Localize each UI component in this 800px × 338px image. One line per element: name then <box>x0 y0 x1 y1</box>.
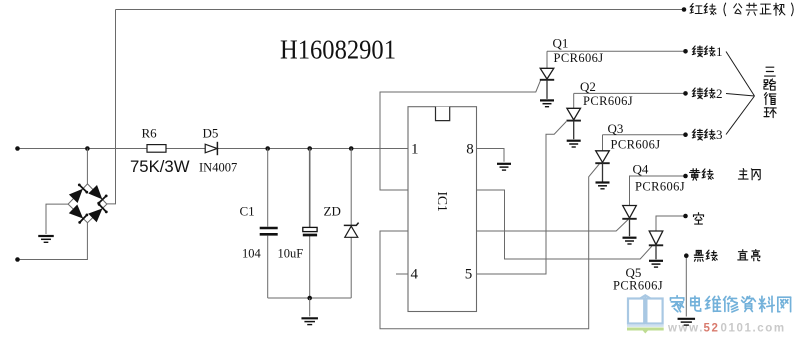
thyristor Q5 <box>649 231 663 259</box>
svg-text:PCR606J: PCR606J <box>635 179 685 193</box>
label Q1 <box>553 36 569 51</box>
label Q3 <box>608 121 624 136</box>
IC IC1 <box>408 107 477 312</box>
label Q3 PCR606J <box>611 137 661 151</box>
bridge rectifier BR1 <box>68 184 108 224</box>
label 三路循环 vertical <box>764 67 776 117</box>
svg-text:H16082901: H16082901 <box>280 34 396 65</box>
ground bridge AC ground <box>38 236 54 242</box>
wire pin2 to Q1 gate <box>380 80 541 190</box>
thyristor Q3 <box>595 135 609 182</box>
thyristor Q1 <box>540 51 554 99</box>
pin 1 <box>411 142 419 158</box>
svg-text:Q1: Q1 <box>553 36 569 51</box>
label R6 <box>142 126 158 141</box>
wire C2 branch <box>309 149 311 299</box>
label ZD <box>324 204 341 219</box>
ground filter ground <box>301 318 318 324</box>
svg-text:PCR606J: PCR606J <box>611 137 661 151</box>
svg-text:3: 3 <box>716 127 723 142</box>
wire Q2 anode to green2 node <box>574 91 688 96</box>
wire top positive rail <box>116 7 687 12</box>
label 10uF <box>278 247 304 261</box>
label C1 <box>240 204 255 219</box>
label Q5 <box>626 265 642 280</box>
label Q1 PCR606J <box>554 51 604 65</box>
svg-text:Q3: Q3 <box>608 121 624 136</box>
pin 5 <box>465 267 473 283</box>
svg-text:PCR606J: PCR606J <box>613 279 663 293</box>
wire black always-on to ground <box>684 253 689 316</box>
watermark text 家电维修资料网 <box>670 296 790 312</box>
svg-text:4: 4 <box>411 267 419 283</box>
node green wire 1 label 绿线1 <box>692 44 722 59</box>
wire Q3 anode to green3 node <box>603 132 688 137</box>
label 75K/3W <box>130 157 190 176</box>
svg-text:Q4: Q4 <box>633 162 649 177</box>
svg-text:PCR606J: PCR606J <box>583 94 633 108</box>
wire bottom left terminal <box>15 223 87 262</box>
wire Q4 anode to yellow node <box>630 174 688 206</box>
ground Q1 cathode <box>540 100 554 106</box>
svg-text:PCR606J: PCR606J <box>554 51 604 65</box>
svg-text:IN4007: IN4007 <box>199 161 237 175</box>
svg-text:2: 2 <box>716 86 723 101</box>
svg-text:www.: www. <box>667 323 704 335</box>
label Q4 <box>633 162 649 177</box>
diode D5 <box>205 142 217 155</box>
wire pin5 to Q2 gate <box>477 122 567 275</box>
svg-text:D5: D5 <box>203 126 219 141</box>
capacitor C1 <box>260 228 278 234</box>
svg-text:C1: C1 <box>240 204 255 219</box>
label Q5 PCR606J <box>613 279 663 293</box>
ground Q4 cathode <box>623 238 637 244</box>
wire capacitor bottom bus <box>268 296 352 317</box>
svg-text:75K/3W: 75K/3W <box>130 157 190 176</box>
zener diode ZD <box>344 223 359 238</box>
svg-text:Q2: Q2 <box>580 79 596 94</box>
label IN4007 <box>199 161 237 175</box>
ground Q3 cathode <box>596 183 610 189</box>
watermark logo book icon <box>627 295 664 333</box>
wire Q5 anode to spare node <box>656 214 688 231</box>
thyristor Q4 <box>622 206 636 237</box>
svg-text:ZD: ZD <box>324 204 341 219</box>
capacitor C2 electrolytic <box>303 227 317 235</box>
wire ZD branch <box>350 149 352 299</box>
node spare label 空 <box>693 213 703 224</box>
wire Q1 anode to green1 node <box>547 49 688 54</box>
ground Q5 cathode <box>649 261 663 267</box>
wire pin4 stub <box>396 273 408 275</box>
wire rail to bridge right corner <box>107 10 116 204</box>
pin 4 <box>411 267 419 283</box>
svg-text:10uF: 10uF <box>278 247 304 261</box>
ground pin8 ground <box>497 164 511 170</box>
wire pin6 to Q4 gate <box>477 220 629 231</box>
node green wire 2 label 绿线2 <box>692 86 722 101</box>
label Q4 PCR606J <box>635 179 685 193</box>
svg-text:104: 104 <box>242 247 262 261</box>
label 104 <box>242 247 262 261</box>
resistor R6 <box>147 145 166 153</box>
node yellow wire label 黄线 主闪 <box>690 169 761 181</box>
wire main horizontal rail <box>15 146 408 151</box>
label Q2 PCR606J <box>583 94 633 108</box>
ground Q2 cathode <box>567 141 581 147</box>
wire pin3 to Q3 gate <box>380 164 599 329</box>
svg-text:IC1: IC1 <box>435 192 450 212</box>
svg-text:5: 5 <box>465 267 473 283</box>
ground black wire ground <box>678 319 696 325</box>
node black wire label 黑线 直亮 <box>694 250 760 262</box>
watermark url www.520101.com <box>667 323 786 335</box>
wire bridge left to ground <box>46 204 68 234</box>
node red wire label 红线（公共正极） <box>690 3 793 16</box>
svg-text:1: 1 <box>716 44 723 59</box>
thyristor Q2 <box>567 93 581 139</box>
svg-text:52: 52 <box>704 323 720 335</box>
node green wire 3 label 绿线3 <box>692 127 722 142</box>
label D5 <box>203 126 219 141</box>
svg-text:1: 1 <box>411 142 419 158</box>
wire C1 branch <box>267 149 269 299</box>
wire pin8 to ground <box>477 149 505 162</box>
svg-text:R6: R6 <box>142 126 158 141</box>
label Q2 <box>580 79 596 94</box>
wire bridge top to rail <box>86 149 88 185</box>
title H16082901 <box>280 34 396 65</box>
pin 8 <box>466 142 474 158</box>
wire cycle brace lines <box>726 52 755 135</box>
svg-text:8: 8 <box>466 142 474 158</box>
svg-text:0101.com: 0101.com <box>721 323 786 335</box>
wire pin7 to Q5 gate <box>477 190 653 259</box>
